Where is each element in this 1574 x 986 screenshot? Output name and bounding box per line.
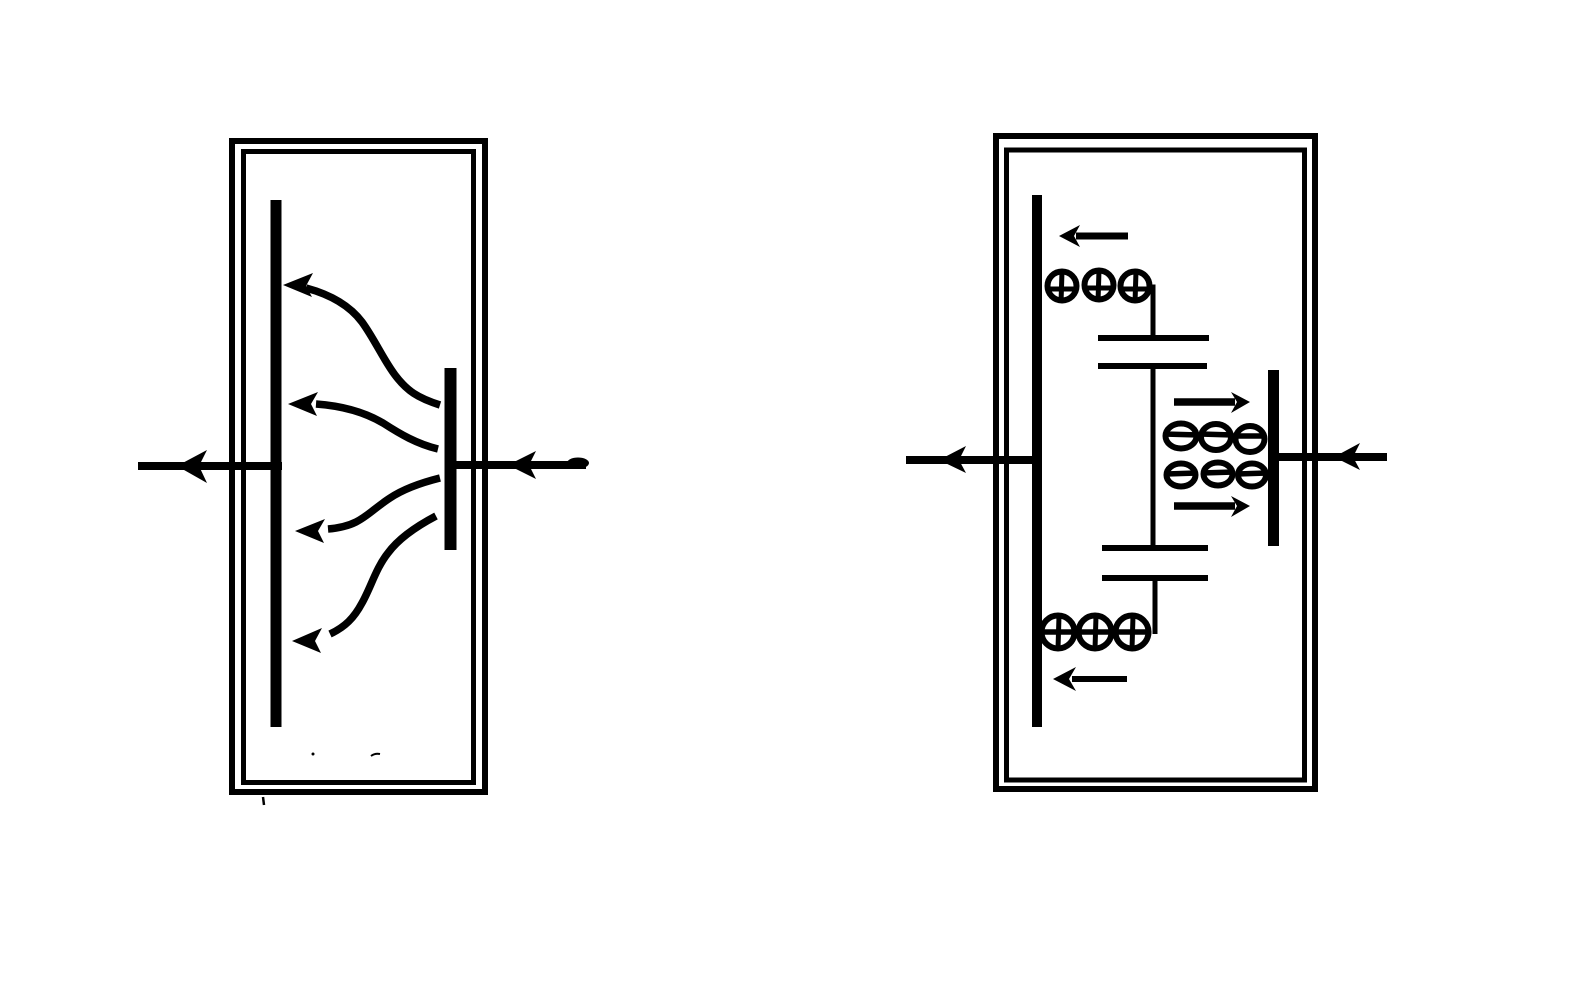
left tube: left lead wire — [138, 462, 282, 470]
left tube: stray dot a — [312, 753, 315, 756]
electron path arrow 1 (top) — [306, 288, 440, 405]
capacitor lower: bottom plate — [1102, 575, 1208, 581]
capacitor upper: top plate — [1098, 335, 1209, 341]
right tube: upper-left motion arrow — [1076, 233, 1128, 240]
right tube: right lead arrowhead — [1334, 443, 1360, 470]
positive ion 4 (bottom group) — [1042, 616, 1076, 650]
electron drift arrowhead upper — [1231, 392, 1250, 413]
left tube: small plate (right electrode) — [445, 368, 457, 550]
right tube: inner envelope wall — [1007, 150, 1305, 780]
left tube: stray tick below box — [263, 797, 264, 805]
left tube: right lead end blob — [567, 458, 589, 469]
right tube: large plate (left electrode) — [1032, 195, 1042, 727]
electron 5 (row 2) — [1202, 463, 1234, 486]
capacitor upper: bottom plate — [1098, 363, 1207, 369]
electron path arrowhead 3 — [295, 519, 325, 543]
positive ion 6 (bottom group) — [1116, 616, 1149, 650]
electron drift arrowhead lower — [1231, 496, 1250, 517]
left tube: stray dot b — [371, 754, 380, 756]
electron path arrow 4 — [330, 516, 436, 634]
left tube: large plate (left electrode) — [271, 200, 282, 727]
wire from top ions to capacitor — [1150, 287, 1153, 339]
electron path arrowhead 2 — [288, 392, 318, 416]
positive ion 3 (top group) — [1120, 271, 1150, 303]
electron 3 (row 1) — [1234, 426, 1266, 452]
right tube: outer envelope wall — [996, 136, 1315, 789]
electron path arrow 2 — [316, 404, 438, 449]
positive ion 2 (top group) — [1084, 270, 1115, 302]
electron 1 (row 1) — [1164, 424, 1199, 449]
electron 6 (row 2) — [1237, 464, 1267, 487]
electron path arrowhead 1 — [283, 273, 313, 297]
electron path arrowhead 4 — [292, 628, 322, 653]
left tube: left lead arrowhead — [177, 450, 207, 483]
electron drift arrow upper — [1174, 398, 1235, 406]
right tube: lower-left motion arrow — [1072, 676, 1127, 682]
electron 4 (row 2) — [1166, 464, 1197, 487]
electron 2 (row 1) — [1200, 424, 1233, 450]
wire between capacitors — [1151, 366, 1156, 548]
right tube: right lead wire — [1277, 453, 1387, 461]
electron drift arrow lower — [1174, 502, 1235, 510]
left tube: outer envelope wall — [232, 141, 485, 792]
right tube: upper-left motion arrowhead — [1059, 225, 1080, 247]
left tube: inner envelope wall — [244, 152, 474, 783]
left tube: right lead arrowhead — [508, 451, 536, 479]
right tube: left lead wire — [906, 456, 1039, 464]
left tube: right lead wire — [450, 461, 586, 469]
capacitor lower: top plate — [1102, 545, 1208, 551]
right tube: small plate (right electrode) — [1268, 370, 1279, 546]
right tube: left lead arrowhead — [939, 446, 966, 473]
positive ion 1 (top group) — [1047, 271, 1078, 303]
positive ion 5 (bottom group) — [1079, 616, 1113, 650]
wire from lower capacitor to bottom ions — [1153, 578, 1158, 634]
electron path arrow 3 — [328, 478, 440, 529]
right tube: lower-left motion arrowhead — [1053, 667, 1076, 691]
